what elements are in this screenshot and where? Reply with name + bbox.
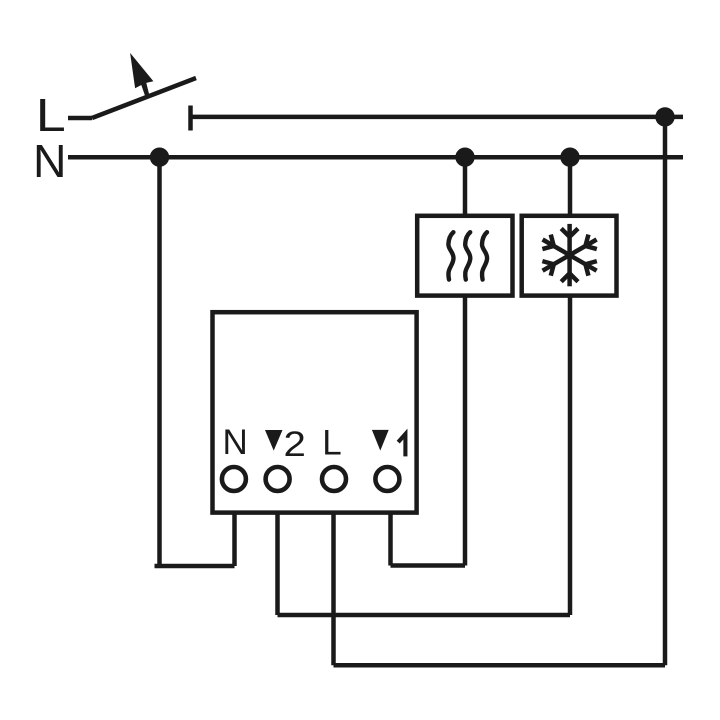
wire L stub to switch pivot xyxy=(68,116,92,121)
switch S1 fixed contact tick xyxy=(188,106,193,131)
wire N to cooler top xyxy=(568,157,573,216)
terminal 1 label (drawn, no foot serif) xyxy=(398,434,405,456)
wire terminal N stub xyxy=(232,513,237,566)
wire cooler bottom down xyxy=(568,296,573,615)
heater E1 symbol (3 heat waves) xyxy=(448,232,487,279)
switch S1 blade (open) xyxy=(92,78,196,118)
wire N line xyxy=(68,155,683,160)
terminal N circle xyxy=(222,467,246,491)
wire heater bottom down xyxy=(463,296,468,566)
wire terminal 2 stub xyxy=(275,513,280,615)
cooler E2 snowflake symbol xyxy=(538,224,600,286)
svg-text:L: L xyxy=(322,424,341,463)
wire link L to terminal L xyxy=(334,663,666,668)
wire N branch down left xyxy=(157,157,162,566)
junction dot on L line xyxy=(655,107,674,126)
wire N to heater top xyxy=(463,157,468,216)
terminal 1 arrow xyxy=(372,430,389,451)
terminal 2 circle xyxy=(266,467,290,491)
wire L branch down right xyxy=(663,117,668,665)
junction dot on N line cooler branch xyxy=(560,148,579,167)
svg-text:N: N xyxy=(223,423,248,462)
thermostat U1 box xyxy=(213,312,417,512)
wire link heater to terminal 1 xyxy=(391,563,466,568)
terminal 2 arrow xyxy=(265,430,283,451)
wire terminal 1 stub xyxy=(388,513,393,566)
wire link to terminal N xyxy=(155,564,235,569)
svg-text:N: N xyxy=(33,135,67,187)
wire link cooler to terminal 2 xyxy=(278,613,571,618)
switch S1 actuator arrow xyxy=(130,53,153,97)
terminal 1 circle xyxy=(375,467,399,491)
wire L line xyxy=(191,115,684,120)
svg-text:2: 2 xyxy=(284,425,306,464)
junction dot on N line heater branch xyxy=(455,148,474,167)
terminal L circle xyxy=(322,467,346,491)
wire terminal L stub xyxy=(331,513,336,666)
heater E1 box xyxy=(417,216,512,296)
junction dot on N line left xyxy=(150,148,169,167)
cooler E2 box xyxy=(522,216,617,296)
svg-text:L: L xyxy=(36,89,66,141)
